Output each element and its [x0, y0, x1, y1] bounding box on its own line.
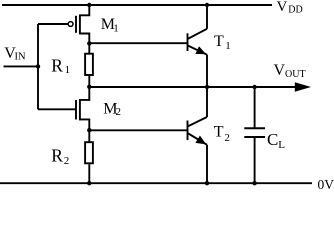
svg-text:T: T — [214, 124, 224, 141]
transistor M2 — [38, 87, 89, 130]
resistor R2 — [85, 130, 93, 183]
label VDD — [277, 0, 303, 16]
node M2 source junction — [87, 128, 91, 132]
svg-text:R: R — [51, 56, 63, 76]
svg-text:R: R — [51, 146, 63, 166]
svg-text:T: T — [214, 33, 224, 50]
transistor T1 — [188, 5, 208, 87]
wire 0V rail — [0, 182, 312, 184]
svg-text:IN: IN — [15, 52, 26, 63]
node VDD-T1 junction — [205, 3, 209, 7]
node 0V-T2 junction — [205, 181, 209, 185]
resistor R1 — [85, 43, 93, 86]
svg-text:0V: 0V — [318, 177, 334, 189]
wire VOUT line — [89, 86, 296, 88]
transistor M1 — [38, 5, 89, 43]
wire VIN input — [4, 65, 39, 67]
label R1 — [51, 56, 70, 77]
node R1-M2 output junction — [87, 85, 91, 89]
capacitor CL — [244, 87, 265, 183]
svg-text:2: 2 — [116, 106, 122, 118]
label M1 — [101, 16, 119, 34]
node 0V-R2 junction — [87, 181, 91, 185]
svg-text:DD: DD — [288, 5, 302, 16]
wire M2 source to T2 base — [89, 129, 187, 131]
label R2 — [51, 146, 69, 168]
node CL output junction — [252, 85, 256, 89]
label T2 — [214, 124, 230, 145]
label T1 — [214, 33, 231, 52]
label VIN — [4, 45, 26, 62]
node T1-T2 output junction — [205, 85, 209, 89]
svg-text:1: 1 — [113, 23, 119, 35]
svg-text:L: L — [278, 139, 285, 151]
node input junction — [36, 64, 40, 68]
wire input spine — [37, 24, 39, 109]
label CL — [267, 130, 285, 151]
svg-text:1: 1 — [65, 64, 71, 76]
label M2 — [103, 100, 121, 118]
svg-text:V: V — [274, 62, 286, 79]
svg-text:1: 1 — [225, 40, 231, 52]
node M1 drain junction — [87, 41, 91, 45]
svg-text:V: V — [277, 0, 288, 15]
svg-text:2: 2 — [64, 155, 70, 167]
wire M1 drain to T1 base — [89, 42, 187, 44]
transistor T2 — [188, 87, 208, 183]
svg-text:2: 2 — [224, 132, 230, 144]
label VOUT — [274, 62, 306, 80]
svg-text:C: C — [267, 130, 278, 149]
svg-text:OUT: OUT — [285, 69, 306, 80]
node 0V-CL junction — [252, 181, 256, 185]
node VDD-M1 junction — [87, 3, 91, 7]
wire VDD rail — [2, 4, 272, 6]
arrow VOUT — [295, 82, 311, 92]
